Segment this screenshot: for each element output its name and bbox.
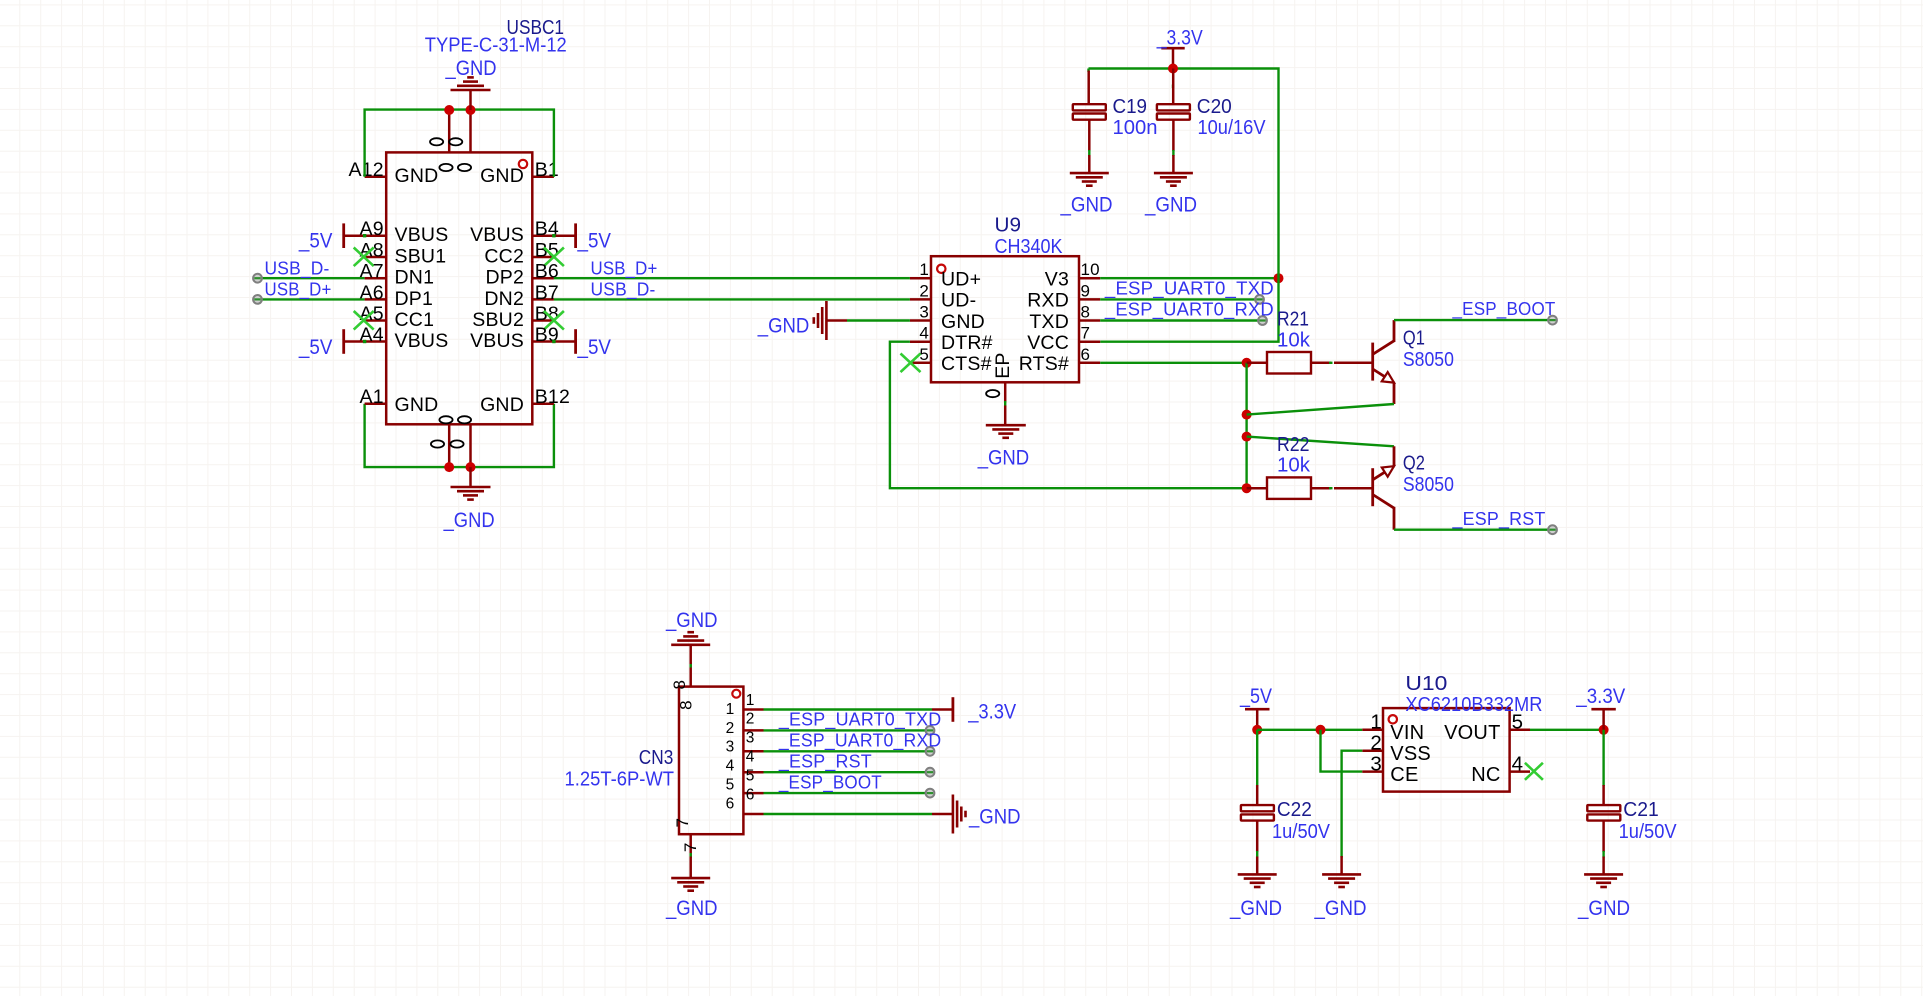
svg-text:B1: B1: [535, 159, 559, 181]
power port _5V at B9: [554, 329, 612, 359]
svg-text:DP2: DP2: [485, 267, 524, 289]
svg-text:4: 4: [746, 749, 755, 766]
svg-text:RTS#: RTS#: [1019, 353, 1069, 375]
svg-text:B12: B12: [535, 386, 570, 408]
net stub endpoint USB_D- left: [253, 274, 262, 283]
wire C20 top: [1172, 85, 1174, 89]
wire TXD to _ESP_UART0_RXD stub: [1100, 319, 1262, 321]
IC U9 CH340K body: [931, 256, 1079, 382]
net label _GND above USBC1: [445, 56, 497, 80]
svg-text:2: 2: [1370, 732, 1382, 755]
R21 designator label: [1277, 309, 1309, 331]
connector USBC1 body: [386, 152, 532, 424]
net stub endpoint CN3 pin4: [926, 768, 935, 777]
svg-text:6: 6: [1081, 345, 1091, 364]
Q1 value label S8050: [1403, 349, 1454, 371]
svg-text:CC1: CC1: [395, 309, 435, 331]
ground symbol above USBC1: [451, 77, 491, 110]
svg-text:VBUS: VBUS: [395, 224, 449, 246]
svg-text:C21: C21: [1623, 799, 1659, 821]
svg-text:4: 4: [1512, 752, 1524, 775]
svg-text:5: 5: [726, 777, 735, 794]
wire C19 bottom: [1088, 150, 1090, 156]
U10 pin 1 VIN: [1362, 711, 1424, 745]
net label _GND below USBC1: [443, 508, 495, 532]
Q2 designator label: [1403, 452, 1425, 474]
svg-text:_ESP_RST: _ESP_RST: [778, 750, 872, 772]
U10 pin 3 CE: [1362, 752, 1418, 786]
svg-text:_ESP_UART0_RXD: _ESP_UART0_RXD: [1104, 299, 1274, 321]
wire VCC branch: [1100, 278, 1278, 342]
net label _GND right of CN3: [968, 804, 1020, 828]
U9 pin 10 V3: [1045, 260, 1100, 290]
power port _5V at A9: [298, 223, 365, 252]
svg-text:10u/16V: 10u/16V: [1198, 117, 1267, 139]
USBC1 pin B6 DP2: [485, 261, 559, 289]
USBC1 shield pin 0 bottom-left: [431, 416, 453, 467]
no-connect X at B5: [544, 248, 564, 267]
U9 pin 1 UD+: [910, 260, 981, 290]
net label _ESP_UART0_RXD at U9: [1104, 299, 1274, 321]
svg-text:A7: A7: [360, 261, 384, 283]
svg-text:_5V: _5V: [298, 229, 333, 253]
power port _5V at U10: [1239, 684, 1272, 730]
wire USB_D- net B7 to U9 pin2: [554, 298, 910, 300]
transistor Q2 S8050: [1334, 446, 1394, 529]
wire CN3 pin6 to ground: [764, 813, 933, 815]
net stub endpoint CN3 pin5: [926, 789, 935, 798]
node A4 pin tip: [363, 340, 366, 343]
USBC1 pin B7 DN2: [484, 282, 559, 310]
U9 pin 2 UD-: [910, 281, 976, 311]
svg-text:DP1: DP1: [395, 288, 434, 310]
svg-text:7: 7: [1081, 324, 1091, 343]
junction bottom shield right: [466, 462, 476, 472]
wire C19 top: [1087, 69, 1089, 73]
svg-text:10k: 10k: [1277, 455, 1311, 477]
svg-text:UD-: UD-: [941, 290, 976, 312]
IC U10 XC6210B332MR body: [1383, 708, 1510, 792]
CN3 pin 7 bottom: [673, 818, 700, 857]
svg-text:U9: U9: [995, 214, 1022, 236]
svg-text:1: 1: [746, 692, 755, 709]
svg-text:8: 8: [677, 700, 696, 710]
svg-text:_ESP_BOOT: _ESP_BOOT: [1452, 298, 1556, 320]
ground symbol below VSS: [1322, 856, 1361, 887]
svg-text:_GND: _GND: [1314, 896, 1367, 920]
CN3 pin 6: [726, 786, 764, 814]
capacitor C19: [1073, 71, 1106, 152]
U9 designator label: [995, 214, 1022, 236]
C19 value label 100n: [1113, 117, 1158, 139]
CN3 pin 4: [726, 749, 764, 775]
CN3 pin 2: [726, 711, 764, 737]
C20 designator label: [1197, 96, 1232, 118]
wire VOUT to 3.3V: [1530, 729, 1604, 731]
svg-text:100n: 100n: [1113, 117, 1158, 139]
svg-text:CC2: CC2: [484, 246, 524, 268]
wire CN3 pin4 ESP_RST: [764, 771, 930, 773]
wire USB_D+ to A6: [258, 298, 365, 300]
USBC1 shield pin 0 top-right: [449, 110, 471, 171]
svg-text:3: 3: [726, 739, 735, 756]
svg-text:_GND: _GND: [665, 896, 717, 920]
ground symbol above CN3: [671, 632, 710, 664]
capacitor C20: [1157, 69, 1190, 152]
Q2 value label S8050: [1403, 474, 1454, 496]
svg-text:_ESP_UART0_TXD: _ESP_UART0_TXD: [1104, 277, 1274, 299]
wire RTS# to R21: [1100, 362, 1246, 364]
svg-text:CN3: CN3: [639, 747, 674, 769]
USBC1 value label TYPE-C-31-M-12: [425, 35, 567, 57]
svg-text:R22: R22: [1277, 434, 1310, 456]
svg-text:6: 6: [746, 786, 755, 803]
U9 pin 0 EP: [986, 352, 1014, 402]
U9 pin 4 DTR#: [910, 324, 993, 354]
svg-text:VBUS: VBUS: [470, 330, 524, 352]
U9 pin 5 CTS#: [910, 345, 992, 375]
ground symbol below CN3: [671, 857, 710, 891]
svg-text:DN1: DN1: [395, 267, 435, 289]
svg-text:_GND: _GND: [1060, 193, 1113, 217]
power port _5V at B4: [554, 223, 612, 252]
net stub endpoint CN3 pin2: [926, 726, 935, 735]
wire C21 top: [1602, 730, 1604, 786]
junction 5V node: [1252, 725, 1262, 735]
svg-text:GND: GND: [480, 165, 524, 187]
net label _ESP_RST: [1452, 508, 1546, 530]
net stub endpoint CN3 pin3: [926, 747, 935, 756]
node B4 pin tip: [552, 234, 555, 237]
net label USB_D+ left: [265, 279, 332, 301]
USBC1 designator label: [507, 17, 565, 39]
svg-text:1u/50V: 1u/50V: [1272, 821, 1331, 843]
U9 value label CH340K: [995, 236, 1064, 258]
capacitor C22: [1241, 785, 1274, 852]
wire C22 bottom: [1256, 851, 1258, 858]
junction top shield left: [444, 105, 454, 115]
svg-text:CTS#: CTS#: [941, 353, 992, 375]
svg-text:C19: C19: [1113, 96, 1148, 118]
svg-text:CH340K: CH340K: [995, 236, 1064, 258]
C22 designator label: [1277, 799, 1312, 821]
svg-text:4: 4: [726, 758, 735, 775]
svg-text:_3.3V: _3.3V: [967, 699, 1016, 723]
svg-text:10: 10: [1081, 260, 1100, 279]
net stub endpoint RXD: [1255, 295, 1264, 304]
ground symbol below C22: [1238, 857, 1277, 888]
svg-text:DTR#: DTR#: [941, 332, 993, 354]
svg-text:_GND: _GND: [1144, 193, 1197, 217]
svg-text:R21: R21: [1277, 309, 1309, 331]
svg-text:SBU2: SBU2: [472, 309, 524, 331]
wire 5V to VIN: [1257, 729, 1362, 731]
wire shield bottom loop: [365, 404, 554, 467]
svg-text:GND: GND: [480, 394, 524, 416]
ground symbol below USBC1: [451, 467, 491, 500]
svg-text:1u/50V: 1u/50V: [1619, 821, 1678, 843]
svg-text:5: 5: [1512, 711, 1524, 734]
svg-text:VBUS: VBUS: [470, 224, 524, 246]
ground symbol right of CN3 pin6: [932, 795, 966, 834]
svg-text:1: 1: [1370, 711, 1382, 734]
USBC1 pin A4 VBUS: [360, 324, 449, 352]
U10 pin 5 VOUT: [1444, 711, 1530, 745]
svg-text:A12: A12: [349, 159, 384, 181]
wire EP to ground: [1004, 401, 1006, 407]
svg-text:S8050: S8050: [1403, 349, 1454, 371]
svg-text:5: 5: [746, 767, 755, 784]
power port _3.3V at CN3: [932, 697, 1017, 723]
svg-text:VIN: VIN: [1390, 722, 1424, 744]
U10 pin 2 VSS: [1362, 732, 1431, 766]
wire Q1 emitter diagonal: [1247, 404, 1394, 415]
svg-text:VOUT: VOUT: [1444, 722, 1500, 744]
USBC1 pin A12 GND: [349, 159, 439, 187]
svg-text:_5V: _5V: [577, 229, 612, 253]
svg-text:SBU1: SBU1: [395, 246, 447, 268]
CN3 value label 1.25T-6P-WT: [565, 768, 675, 790]
CN3 designator label: [639, 747, 674, 769]
junction RTS node: [1242, 358, 1252, 368]
svg-text:GND: GND: [395, 165, 439, 187]
net label _GND below C20: [1144, 193, 1197, 217]
svg-text:_ESP_BOOT: _ESP_BOOT: [778, 771, 882, 793]
CN3 pin 3: [726, 730, 764, 756]
net label _ESP_UART0_TXD at CN3: [778, 709, 941, 731]
net label _GND below U9: [977, 446, 1029, 470]
wire CN3 pin7 to ground: [690, 853, 692, 858]
wire C21 bottom: [1602, 851, 1604, 858]
svg-text:3: 3: [1370, 752, 1382, 775]
svg-text:TXD: TXD: [1029, 311, 1069, 333]
ground symbol below C20: [1154, 155, 1193, 186]
no-connect X at A8: [354, 248, 374, 267]
no-connect X at A5: [354, 311, 374, 330]
net stub endpoint USB_D+ left: [253, 295, 262, 304]
svg-text:7: 7: [681, 842, 700, 852]
svg-text:8: 8: [670, 680, 689, 690]
USBC1 pin A8 SBU1: [360, 240, 447, 268]
net stub endpoint TXD: [1258, 316, 1267, 325]
svg-text:GND: GND: [941, 311, 985, 333]
svg-text:_GND: _GND: [445, 56, 497, 80]
svg-text:7: 7: [673, 818, 692, 828]
USBC1 pin B5 CC2: [484, 240, 559, 268]
svg-text:VSS: VSS: [1390, 743, 1431, 765]
net label _GND below VSS: [1314, 896, 1367, 920]
wire CN3 pin8 to ground: [690, 663, 692, 668]
svg-text:_GND: _GND: [977, 446, 1029, 470]
capacitor C21: [1587, 785, 1620, 852]
svg-text:USB_D-: USB_D-: [591, 279, 656, 301]
C20 value label 10u/16V: [1198, 117, 1267, 139]
net label _GND below C21: [1577, 896, 1630, 920]
net label _GND left of U9 pin3: [757, 314, 809, 338]
net label _ESP_BOOT at CN3: [778, 771, 882, 793]
svg-text:VCC: VCC: [1027, 332, 1069, 354]
svg-text:EP: EP: [992, 352, 1014, 378]
svg-text:Q2: Q2: [1403, 452, 1425, 474]
junction Q2 emitter node: [1242, 432, 1252, 442]
junction V3 node: [1274, 273, 1284, 283]
C21 designator label: [1623, 799, 1659, 821]
no-connect X at CTS#: [901, 354, 921, 373]
power port _3.3V at U10: [1575, 684, 1625, 730]
svg-text:_GND: _GND: [1577, 896, 1630, 920]
svg-text:_ESP_RST: _ESP_RST: [1452, 508, 1546, 530]
net label _ESP_BOOT: [1452, 298, 1556, 320]
USBC1 shield pin 0 bottom-right: [450, 416, 471, 467]
ground symbol below C21: [1584, 857, 1623, 888]
node B9 pin tip: [552, 340, 555, 343]
wire CN3 pin2 ESP_UART0_TXD: [764, 729, 930, 731]
ground symbol left of U9 pin3: [814, 301, 847, 340]
Q1 designator label: [1403, 328, 1425, 350]
net label _ESP_RST at CN3: [778, 750, 872, 772]
wire Q2 emitter diagonal: [1247, 437, 1394, 447]
CN3 pin 8 top: [670, 664, 696, 710]
svg-text:C20: C20: [1197, 96, 1232, 118]
no-connect X at NC: [1525, 763, 1543, 780]
net label _GND below CN3: [665, 896, 717, 920]
U10 value label XC6210B332MR: [1405, 694, 1542, 716]
svg-text:A6: A6: [360, 282, 384, 304]
U9 pin 9 RXD: [1027, 281, 1100, 311]
svg-text:1: 1: [726, 701, 735, 718]
USBC1 shield pin 0 top-left: [430, 110, 453, 171]
C21 value label 1u/50V: [1619, 821, 1678, 843]
wire RXD to _ESP_UART0_TXD stub: [1100, 298, 1259, 300]
svg-text:_ESP_UART0_TXD: _ESP_UART0_TXD: [778, 709, 941, 731]
USBC1 pin A9 VBUS: [360, 218, 449, 246]
svg-text:VBUS: VBUS: [395, 330, 449, 352]
net label _GND below C22: [1229, 896, 1282, 920]
power port _3.3V top: [1156, 25, 1203, 68]
svg-text:2: 2: [919, 281, 929, 300]
junction CE branch node: [1316, 725, 1326, 735]
svg-text:_GND: _GND: [665, 608, 717, 632]
U9 pin 3 GND: [910, 303, 985, 333]
wire V3 to 3.3V rail: [1100, 277, 1278, 279]
U10 designator label: [1405, 673, 1447, 695]
transistor Q1 S8050: [1334, 320, 1394, 404]
svg-text:10k: 10k: [1277, 329, 1311, 351]
U9 pin 8 TXD: [1029, 303, 1100, 333]
net label USB_D- left: [265, 257, 330, 279]
svg-text:_GND: _GND: [968, 804, 1020, 828]
net label USB_D- right: [591, 279, 656, 301]
net label _ESP_UART0_TXD at U9: [1104, 277, 1274, 299]
wire ESP_RST from Q2 collector: [1394, 529, 1552, 531]
wire vertical cross-couple bus: [1245, 363, 1247, 488]
wire USB_D- to A7: [258, 277, 365, 279]
USBC1 pin A7 DN1: [360, 261, 435, 289]
wire VSS to ground: [1342, 751, 1363, 858]
CN3 pin 5: [726, 767, 764, 793]
wire ESP_BOOT from Q1 collector: [1394, 319, 1552, 321]
svg-text:8: 8: [1081, 303, 1091, 322]
svg-text:NC: NC: [1471, 764, 1500, 786]
net label _ESP_UART0_RXD at CN3: [778, 730, 941, 752]
svg-text:3: 3: [746, 730, 755, 747]
USBC1 pin B12 GND: [480, 386, 570, 416]
USBC1 pin B1 GND: [480, 159, 559, 187]
ground symbol below U9 EP: [986, 406, 1026, 438]
svg-text:C22: C22: [1277, 799, 1312, 821]
svg-text:3: 3: [919, 303, 929, 322]
junction top shield right: [466, 105, 476, 115]
svg-text:6: 6: [726, 795, 735, 812]
junction Q1 emitter node: [1242, 410, 1252, 420]
C19 designator label: [1113, 96, 1148, 118]
wire C20 bottom: [1172, 150, 1174, 156]
R22 value label 10k: [1277, 455, 1311, 477]
resistor R21: [1247, 352, 1331, 374]
U9 pin 6 RTS#: [1019, 345, 1100, 375]
svg-text:GND: GND: [395, 394, 439, 416]
net label _GND above CN3: [665, 608, 717, 632]
svg-text:_GND: _GND: [757, 314, 809, 338]
svg-text:USB_D-: USB_D-: [265, 257, 330, 279]
junction 3.3V rail node: [1168, 64, 1178, 74]
svg-text:Q1: Q1: [1403, 328, 1425, 350]
net stub endpoint ESP_BOOT: [1548, 316, 1557, 325]
svg-text:_ESP_UART0_RXD: _ESP_UART0_RXD: [778, 730, 941, 752]
R22 designator label: [1277, 434, 1310, 456]
svg-text:2: 2: [746, 711, 755, 728]
wire CN3 pin3 ESP_UART0_RXD: [764, 750, 930, 752]
svg-text:A1: A1: [360, 386, 384, 408]
svg-text:V3: V3: [1045, 269, 1069, 291]
svg-text:UD+: UD+: [941, 269, 981, 291]
svg-text:9: 9: [1081, 281, 1091, 300]
CN3 pin 1: [726, 692, 764, 718]
USBC1 pin A1 GND: [360, 386, 439, 416]
net stub endpoint ESP_RST: [1548, 525, 1557, 534]
svg-text:_3.3V: _3.3V: [1575, 684, 1625, 708]
wire U9 pin3 to ground: [847, 319, 910, 321]
svg-text:4: 4: [919, 324, 929, 343]
USBC1 pin A6 DP1: [360, 282, 434, 310]
svg-text:_GND: _GND: [443, 508, 495, 532]
svg-text:2: 2: [726, 720, 735, 737]
svg-text:1.25T-6P-WT: 1.25T-6P-WT: [565, 768, 675, 790]
svg-text:S8050: S8050: [1403, 474, 1454, 496]
svg-text:B6: B6: [535, 261, 559, 283]
svg-text:_5V: _5V: [577, 335, 612, 359]
svg-text:_3.3V: _3.3V: [1156, 25, 1203, 49]
svg-text:DN2: DN2: [484, 288, 524, 310]
power port _5V at A4: [298, 329, 365, 359]
svg-text:_GND: _GND: [1229, 896, 1282, 920]
wire R21 to Q1 base: [1329, 362, 1333, 364]
net label USB_D+ right: [591, 257, 658, 279]
R21 value label 10k: [1277, 329, 1311, 351]
wire C22 top: [1256, 730, 1258, 786]
svg-text:_5V: _5V: [298, 335, 333, 359]
wire shield top loop: [365, 110, 554, 177]
wire USB_D+ net B6 to U9 pin1: [554, 277, 910, 279]
wire CN3 pin5 ESP_BOOT: [764, 792, 930, 794]
C22 value label 1u/50V: [1272, 821, 1331, 843]
wire DTR# to R22: [890, 342, 1247, 489]
wire 3.3V rail: [1089, 69, 1279, 279]
USBC1 pin A5 CC1: [360, 303, 435, 331]
svg-text:TYPE-C-31-M-12: TYPE-C-31-M-12: [425, 35, 567, 57]
wire R22 to Q2 base: [1329, 487, 1333, 489]
svg-text:1: 1: [919, 260, 929, 279]
